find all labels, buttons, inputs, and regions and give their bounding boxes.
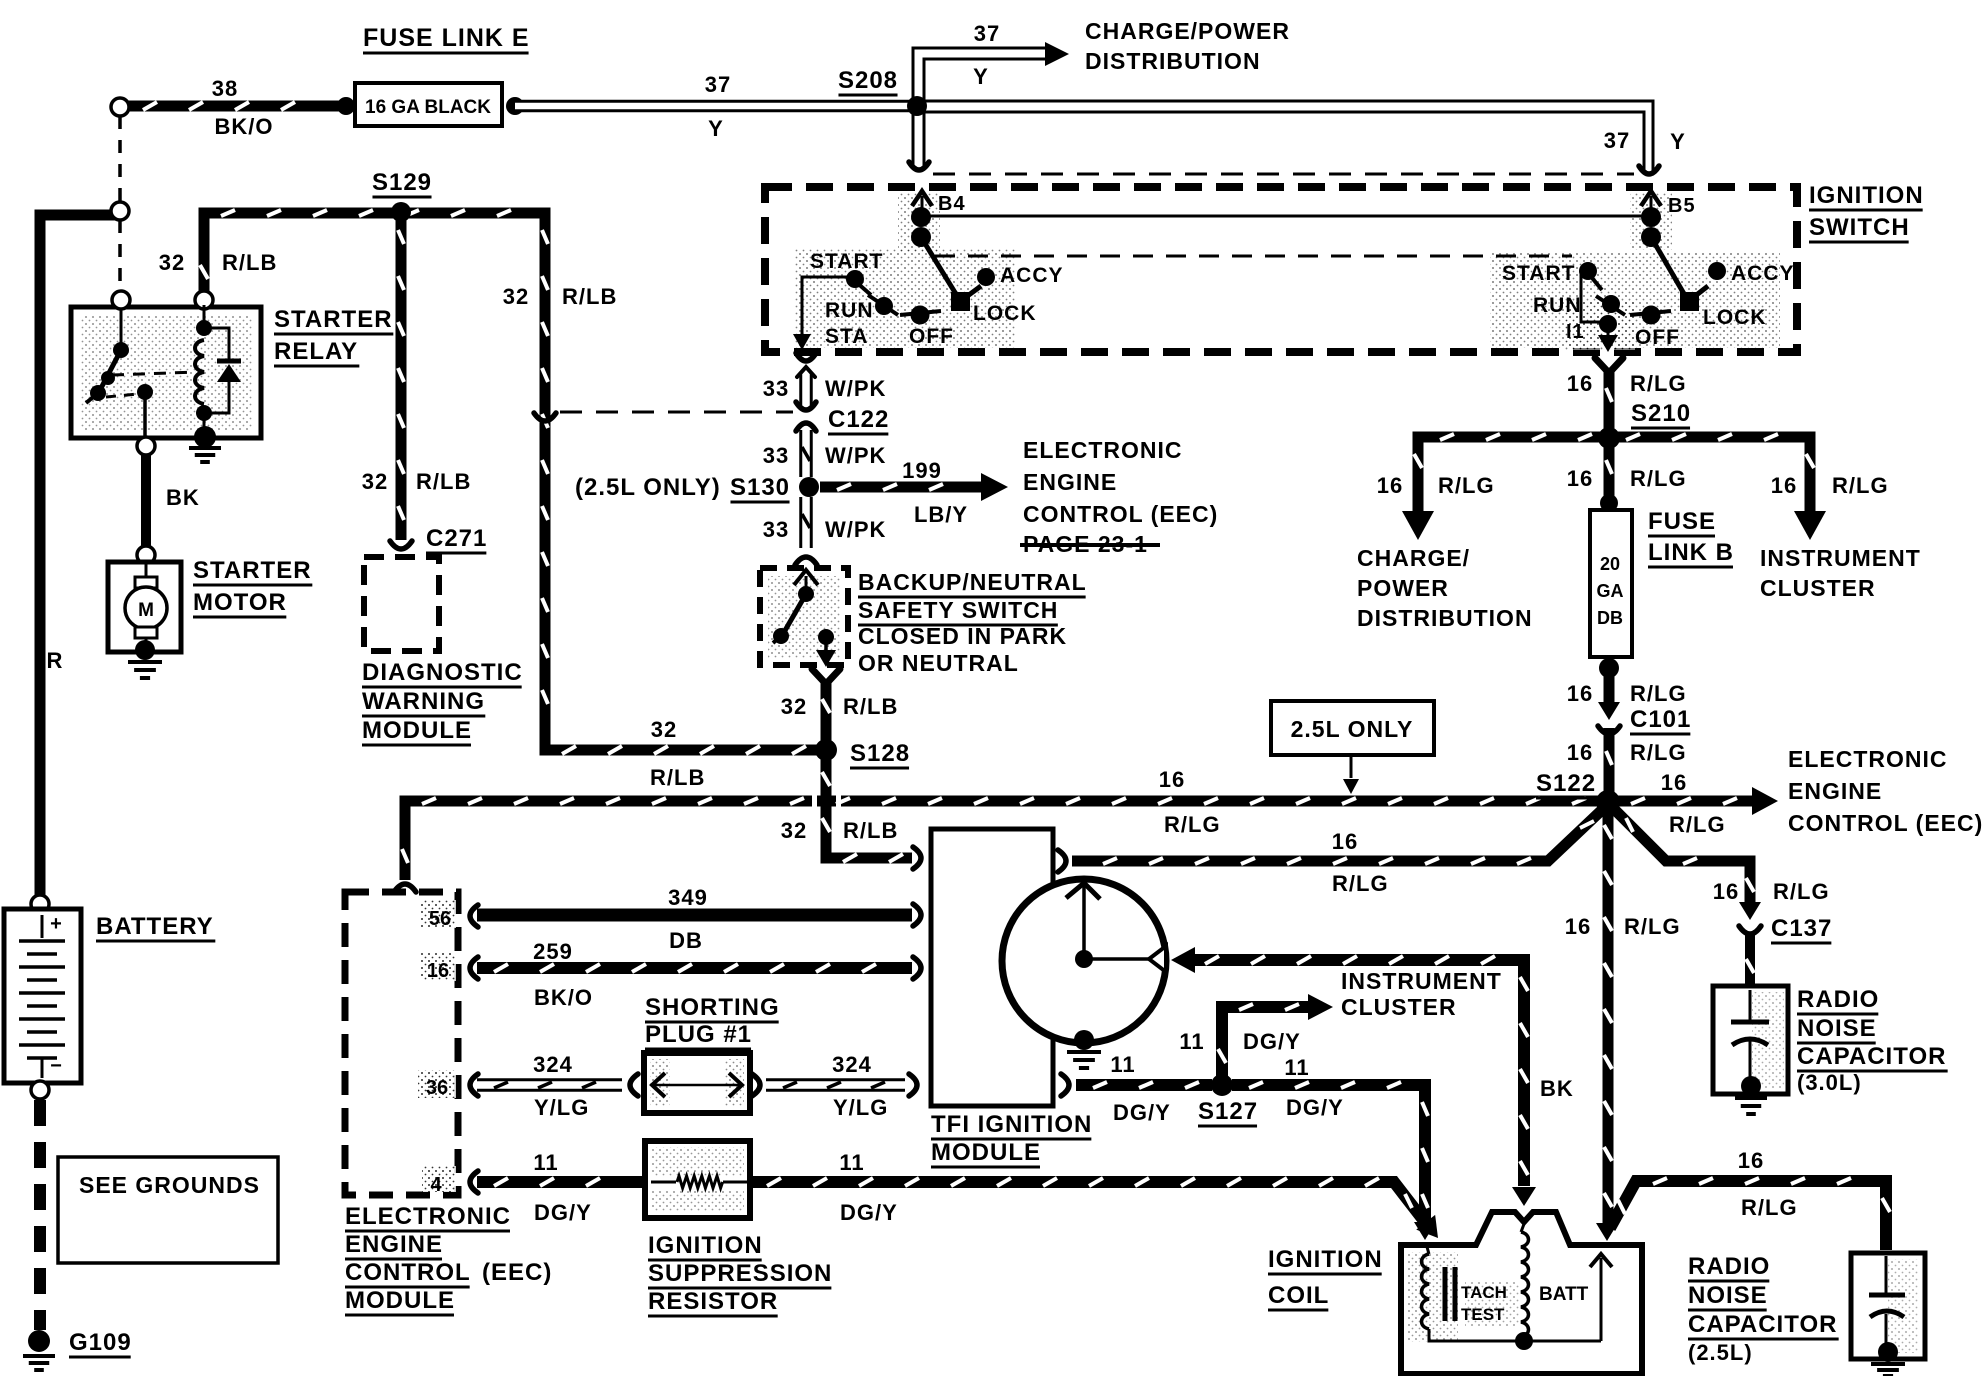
svg-text:R/LG: R/LG bbox=[1630, 371, 1687, 396]
svg-text:RELAY: RELAY bbox=[274, 338, 358, 365]
svg-text:SHORTING: SHORTING bbox=[645, 994, 780, 1021]
svg-text:16: 16 bbox=[1565, 914, 1591, 939]
contact OFF (right) hex dot bbox=[1630, 311, 1671, 315]
hollow terminal below battery bbox=[31, 1081, 49, 1099]
svg-text:DIAGNOSTIC: DIAGNOSTIC bbox=[362, 659, 523, 686]
svg-text:OFF: OFF bbox=[1635, 326, 1680, 349]
S208 right branch 37 Y to ignition switch B5 bbox=[917, 101, 1653, 172]
svg-text:20: 20 bbox=[1600, 554, 1620, 574]
svg-text:16: 16 bbox=[1332, 829, 1358, 854]
wire 11 DG/Y (EEC 4 to resistor) bbox=[477, 1176, 648, 1188]
svg-text:32: 32 bbox=[651, 717, 677, 742]
svg-text:259: 259 bbox=[533, 939, 573, 964]
svg-text:TEST: TEST bbox=[1461, 1305, 1505, 1324]
svg-text:RUN: RUN bbox=[1533, 294, 1582, 317]
svg-text:ENGINE: ENGINE bbox=[1788, 778, 1882, 804]
wire 259 BK/O (EEC 16 to TFI) bbox=[477, 962, 912, 974]
coil primary winding bbox=[1427, 1247, 1429, 1254]
svg-text:CAPACITOR: CAPACITOR bbox=[1688, 1311, 1837, 1338]
svg-text:LINK B: LINK B bbox=[1648, 539, 1734, 566]
svg-text:WARNING: WARNING bbox=[362, 688, 485, 715]
connector flare at EEC module top (16 R/LG) bbox=[394, 884, 416, 892]
svg-text:C101: C101 bbox=[1630, 706, 1691, 733]
hollow terminal above battery bbox=[31, 895, 49, 913]
connector C137 (arrow into connector) bbox=[1739, 902, 1761, 920]
svg-text:16 GA BLACK: 16 GA BLACK bbox=[365, 97, 491, 118]
svg-text:BATT: BATT bbox=[1539, 1284, 1589, 1305]
wire 38 BK/O bbox=[126, 101, 340, 112]
wire below S128 to TFI module bbox=[826, 755, 912, 858]
svg-text:R/LB: R/LB bbox=[843, 818, 898, 843]
resistor element bbox=[651, 1181, 676, 1184]
SEE GROUNDS box bbox=[58, 1157, 278, 1263]
svg-text:TACH: TACH bbox=[1461, 1283, 1507, 1302]
line START to I1 exit (left) bbox=[802, 277, 855, 338]
svg-text:B5: B5 bbox=[1668, 195, 1696, 217]
svg-text:Y: Y bbox=[973, 64, 989, 89]
dashed link down to starter relay bbox=[118, 220, 122, 292]
S208 down branch to ignition switch B4 bbox=[912, 108, 915, 166]
svg-text:DB: DB bbox=[1597, 608, 1623, 628]
svg-text:STA: STA bbox=[825, 325, 868, 348]
relay diode bbox=[204, 328, 229, 360]
connector C101 (arrow into connector) bbox=[1598, 702, 1620, 720]
connector flare below ignition switch I1 (Y) bbox=[1595, 358, 1623, 373]
svg-text:PLUG #1: PLUG #1 bbox=[645, 1021, 752, 1048]
svg-text:M: M bbox=[138, 600, 154, 621]
backup/neutral safety switch dashed box bbox=[760, 568, 848, 665]
svg-text:38: 38 bbox=[212, 76, 238, 101]
svg-text:C122: C122 bbox=[828, 406, 889, 433]
stipple areas in switch bbox=[795, 248, 1015, 348]
svg-text:16: 16 bbox=[1377, 473, 1403, 498]
svg-text:R/LG: R/LG bbox=[1630, 681, 1687, 706]
wire 324 Y/LG (plug to TFI) bbox=[752, 1074, 760, 1096]
splice S122 dot bbox=[1596, 790, 1620, 814]
dashed link between B4 and B5 connectors bbox=[933, 173, 1634, 176]
svg-text:16: 16 bbox=[1567, 466, 1593, 491]
wire 11 DG/Y (S127 to ignition coil) bbox=[1232, 1085, 1425, 1222]
terminal B4 arrow bbox=[921, 196, 924, 216]
terminal B5 arrow bbox=[1650, 196, 1653, 216]
coil bottom junction dot bbox=[1515, 1332, 1533, 1350]
svg-text:NOISE: NOISE bbox=[1688, 1282, 1768, 1309]
svg-text:33: 33 bbox=[763, 517, 789, 542]
svg-text:DB: DB bbox=[669, 928, 703, 953]
fuse link B box 20 GA DB bbox=[1590, 510, 1632, 657]
svg-text:32: 32 bbox=[781, 818, 807, 843]
distributor ground dot bbox=[1074, 1030, 1094, 1050]
coil core bars bbox=[1443, 1267, 1448, 1321]
distributor rotor shaft dot bbox=[1075, 950, 1093, 968]
relay ground symbol bbox=[189, 446, 221, 450]
splice S127 bbox=[1211, 1074, 1233, 1096]
dashed link battery feed down from fuse-link terminal bbox=[118, 116, 122, 202]
dashed divider inside ignition switch bbox=[935, 255, 1572, 258]
shorting plug box bbox=[644, 1053, 750, 1113]
svg-text:LOCK: LOCK bbox=[973, 302, 1037, 325]
capacitor 2.5L ground dot bbox=[1878, 1342, 1898, 1362]
EEC pin 56 bbox=[420, 900, 456, 928]
svg-text:SUPPRESSION: SUPPRESSION bbox=[648, 1260, 832, 1287]
wire BK relay to starter motor bbox=[141, 455, 151, 548]
svg-text:S122: S122 bbox=[1536, 770, 1596, 797]
backup switch blade bbox=[783, 594, 806, 634]
svg-text:−: − bbox=[50, 1055, 62, 1077]
terminal dot above fuse link B bbox=[1600, 494, 1618, 512]
svg-text:START: START bbox=[810, 250, 883, 273]
TFI pin chevrons (left edge) bbox=[913, 904, 921, 926]
wire 32 R/LB to S128 bbox=[821, 682, 832, 746]
wire 11 DG/Y (resistor to ignition coil) bbox=[750, 1182, 1428, 1226]
svg-text:16: 16 bbox=[1738, 1148, 1764, 1173]
svg-text:33: 33 bbox=[763, 376, 789, 401]
svg-text:324: 324 bbox=[533, 1052, 573, 1077]
svg-text:16: 16 bbox=[1661, 770, 1687, 795]
EEC pin 4 bbox=[422, 1166, 456, 1192]
svg-text:RADIO: RADIO bbox=[1688, 1253, 1770, 1280]
battery feed wire R bbox=[40, 215, 116, 897]
svg-text:R/LG: R/LG bbox=[1332, 871, 1389, 896]
svg-text:R: R bbox=[47, 648, 64, 673]
svg-text:R/LG: R/LG bbox=[1164, 812, 1221, 837]
svg-text:CLUSTER: CLUSTER bbox=[1341, 994, 1457, 1020]
svg-text:Y/LG: Y/LG bbox=[833, 1095, 888, 1120]
svg-text:ELECTRONIC: ELECTRONIC bbox=[1788, 746, 1948, 772]
pivot square (left) bbox=[951, 292, 970, 311]
wire 33 W/PK upper bbox=[799, 374, 813, 408]
ignition switch dashed box bbox=[765, 187, 1797, 352]
svg-text:33: 33 bbox=[763, 443, 789, 468]
svg-text:STARTER: STARTER bbox=[274, 306, 393, 333]
arrow I1 exit bbox=[1607, 324, 1610, 336]
switch wiper diagonal (left) bbox=[921, 237, 959, 299]
svg-text:R/LB: R/LB bbox=[650, 765, 705, 790]
contact dot B5 lower bbox=[1641, 227, 1661, 247]
svg-text:R/LB: R/LB bbox=[843, 694, 898, 719]
svg-text:START: START bbox=[1502, 262, 1575, 285]
svg-text:37: 37 bbox=[705, 72, 731, 97]
ground G109 dot bbox=[28, 1330, 50, 1352]
TFI 16 R/LG output chevron (top right) bbox=[1058, 850, 1066, 872]
backup switch entry arrow bbox=[794, 570, 818, 585]
wire from S129 down to C271 bbox=[396, 213, 407, 540]
svg-text:324: 324 bbox=[832, 1052, 872, 1077]
svg-text:MODULE: MODULE bbox=[345, 1287, 455, 1314]
starter motor ground symbol bbox=[128, 660, 162, 664]
svg-text:(2.5L ONLY): (2.5L ONLY) bbox=[575, 474, 721, 501]
wire BK (coil to distributor) bbox=[1188, 960, 1524, 1186]
svg-text:SEE GROUNDS: SEE GROUNDS bbox=[79, 1172, 260, 1198]
coil secondary winding bbox=[1521, 1224, 1524, 1232]
dashed link C122 to R/LB riser bbox=[560, 411, 793, 414]
svg-text:RADIO: RADIO bbox=[1797, 986, 1879, 1013]
svg-text:Y/LG: Y/LG bbox=[534, 1095, 589, 1120]
svg-text:CHARGE/POWER: CHARGE/POWER bbox=[1085, 18, 1290, 44]
motor symbol bbox=[145, 564, 148, 580]
capacitor symbol (3.0L) bbox=[1749, 990, 1752, 1020]
splice S210 dot bbox=[1598, 427, 1620, 449]
long wire 16 R/LG bbox=[405, 801, 1602, 880]
svg-text:ACCY: ACCY bbox=[1731, 262, 1795, 285]
wire 37 Y (double line) to S208 bbox=[515, 100, 917, 113]
TFI ignition module box bbox=[931, 829, 1053, 1106]
wire 324 Y/LG (EEC 36 to shorting plug) bbox=[477, 1078, 622, 1092]
svg-text:C271: C271 bbox=[426, 525, 487, 552]
svg-text:CLOSED IN PARK: CLOSED IN PARK bbox=[858, 623, 1067, 649]
EEC pin 36 bbox=[418, 1070, 456, 1098]
S122 diagonal to C137 branch bbox=[1613, 808, 1750, 903]
svg-text:MODULE: MODULE bbox=[931, 1139, 1041, 1166]
svg-text:11: 11 bbox=[1179, 1029, 1204, 1054]
wire 199 LB/Y to EEC bbox=[820, 482, 985, 493]
svg-text:MODULE: MODULE bbox=[362, 717, 472, 744]
svg-text:POWER: POWER bbox=[1357, 575, 1449, 601]
svg-text:IGNITION: IGNITION bbox=[1268, 1246, 1383, 1273]
svg-text:11: 11 bbox=[839, 1150, 864, 1175]
svg-text:RUN: RUN bbox=[825, 299, 874, 322]
svg-text:FUSE LINK E: FUSE LINK E bbox=[363, 24, 530, 52]
svg-text:COIL: COIL bbox=[1268, 1282, 1329, 1309]
svg-text:INSTRUMENT: INSTRUMENT bbox=[1341, 968, 1502, 994]
svg-text:RESISTOR: RESISTOR bbox=[648, 1288, 778, 1315]
contact ACCY (right) dot bbox=[1708, 262, 1726, 280]
relay contact bbox=[137, 384, 153, 400]
svg-text:W/PK: W/PK bbox=[825, 443, 886, 468]
junction dot left of fuse link box bbox=[337, 97, 355, 115]
radio noise capacitor 3.0L box bbox=[1713, 986, 1788, 1094]
svg-text:NOISE: NOISE bbox=[1797, 1015, 1877, 1042]
svg-text:S130: S130 bbox=[730, 474, 790, 501]
wire 16 R/LG: I1 to S210 bbox=[1604, 371, 1615, 432]
contact START (left) dot bbox=[846, 270, 864, 288]
svg-text:CLUSTER: CLUSTER bbox=[1760, 575, 1876, 601]
svg-text:CONTROL (EEC): CONTROL (EEC) bbox=[1023, 501, 1218, 527]
svg-text:CONTROL (EEC): CONTROL (EEC) bbox=[1788, 810, 1983, 836]
svg-text:BK: BK bbox=[166, 485, 200, 510]
svg-text:MOTOR: MOTOR bbox=[193, 589, 287, 616]
svg-text:16: 16 bbox=[1713, 879, 1739, 904]
svg-text:DISTRIBUTION: DISTRIBUTION bbox=[1357, 605, 1533, 631]
contact dot B4 lower bbox=[911, 227, 931, 247]
starter relay box bbox=[71, 307, 261, 438]
svg-text:R/LG: R/LG bbox=[1773, 879, 1830, 904]
pivot square (right) bbox=[1680, 292, 1699, 311]
svg-text:Y: Y bbox=[708, 116, 724, 141]
svg-text:S129: S129 bbox=[372, 169, 432, 196]
svg-text:Y: Y bbox=[1670, 129, 1686, 154]
svg-text:I1: I1 bbox=[1566, 321, 1585, 343]
EEC module dashed box bbox=[345, 892, 458, 1195]
coil BATT terminal riser bbox=[1600, 1258, 1603, 1341]
S122 down wire to ignition coil bbox=[1603, 808, 1614, 1225]
S208 junction dot bbox=[907, 96, 927, 116]
line START to I1 (right) bbox=[1581, 271, 1604, 322]
svg-text:37: 37 bbox=[974, 21, 1000, 46]
distributor rotor line up bbox=[1082, 884, 1086, 959]
svg-text:S127: S127 bbox=[1198, 1098, 1258, 1125]
svg-text:ELECTRONIC: ELECTRONIC bbox=[345, 1203, 511, 1230]
svg-text:GA: GA bbox=[1597, 581, 1624, 601]
S208 branch up to charge/power distribution arrow bbox=[913, 48, 1050, 104]
svg-text:R/LG: R/LG bbox=[1669, 812, 1726, 837]
svg-text:11: 11 bbox=[1284, 1055, 1309, 1080]
svg-text:37: 37 bbox=[1604, 128, 1630, 153]
connector chevron on riser receiving C122 dashed link bbox=[534, 413, 556, 421]
EEC pin 16 bbox=[420, 953, 456, 981]
diagnostic warning module dashed box bbox=[364, 557, 439, 651]
S210 right arm to instrument cluster bbox=[1609, 437, 1810, 512]
splice S128 bbox=[815, 739, 837, 761]
contact START (right) dot bbox=[1579, 262, 1597, 280]
S210 left arm to charge/power distribution bbox=[1418, 437, 1609, 512]
wire C101 to S122 bbox=[1604, 728, 1615, 796]
terminal dot below fuse link B bbox=[1599, 658, 1619, 678]
ignition coil case bbox=[1401, 1212, 1642, 1374]
capacitor 2.5L ground symbol bbox=[1871, 1362, 1905, 1366]
svg-text:BACKUP/NEUTRAL: BACKUP/NEUTRAL bbox=[858, 569, 1087, 595]
svg-text:11: 11 bbox=[533, 1150, 558, 1175]
svg-text:16: 16 bbox=[1567, 681, 1593, 706]
svg-text:CONTROL: CONTROL bbox=[345, 1259, 471, 1286]
battery ground cable (dashed thick) bbox=[34, 1100, 46, 1330]
svg-text:SWITCH: SWITCH bbox=[1809, 214, 1910, 241]
relay coil bbox=[203, 305, 206, 330]
junction dot right of fuse link box bbox=[506, 97, 524, 115]
svg-text:W/PK: W/PK bbox=[825, 517, 886, 542]
distributor ground symbol bbox=[1067, 1050, 1101, 1054]
svg-text:CAPACITOR: CAPACITOR bbox=[1797, 1043, 1946, 1070]
contact OFF (left) hex dot bbox=[900, 311, 941, 315]
svg-text:DG/Y: DG/Y bbox=[1286, 1095, 1344, 1120]
svg-text:16: 16 bbox=[1567, 371, 1593, 396]
svg-text:G109: G109 bbox=[69, 1329, 132, 1356]
backup switch lower-left contact dot bbox=[773, 628, 789, 644]
backup switch exit arrow bbox=[824, 637, 828, 650]
wire 11 DG/Y (TFI to S127) bbox=[1061, 1074, 1069, 1096]
relay output terminal ring bbox=[137, 437, 155, 455]
svg-text:16: 16 bbox=[1771, 473, 1797, 498]
hollow terminal at corner bbox=[111, 202, 129, 220]
svg-text:IGNITION: IGNITION bbox=[648, 1232, 763, 1259]
svg-text:SAFETY SWITCH: SAFETY SWITCH bbox=[858, 597, 1058, 623]
svg-text:DG/Y: DG/Y bbox=[1243, 1029, 1301, 1054]
svg-text:BATTERY: BATTERY bbox=[96, 913, 214, 940]
svg-text:ELECTRONIC: ELECTRONIC bbox=[1023, 437, 1183, 463]
svg-text:OR NEUTRAL: OR NEUTRAL bbox=[858, 650, 1019, 676]
contact RUN (left) dot bbox=[868, 295, 898, 315]
wire fuse to C101 bbox=[1604, 668, 1615, 704]
wire C137 to radio noise capacitor 3.0L bbox=[1745, 932, 1755, 988]
fuse link box 16 GA BLACK bbox=[355, 83, 502, 126]
svg-text:+: + bbox=[50, 913, 62, 935]
relay armature bbox=[120, 309, 123, 345]
svg-text:DG/Y: DG/Y bbox=[840, 1200, 898, 1225]
ignition suppression resistor box bbox=[645, 1141, 750, 1218]
wire 33 W/PK middle bbox=[799, 430, 813, 477]
svg-text:R/LG: R/LG bbox=[1438, 473, 1495, 498]
coil bottom bus bbox=[1429, 1329, 1601, 1341]
capacitor 3.0L ground dot bbox=[1741, 1076, 1761, 1096]
svg-text:TFI IGNITION: TFI IGNITION bbox=[931, 1111, 1092, 1138]
svg-text:ACCY: ACCY bbox=[1000, 264, 1064, 287]
connector flare below ignition switch (33 W/PK) bbox=[796, 353, 816, 361]
shorting plug internal link bbox=[652, 1084, 742, 1087]
wire 33 W/PK lower bbox=[799, 497, 813, 548]
svg-text:CHARGE/: CHARGE/ bbox=[1357, 545, 1470, 571]
svg-text:R/LG: R/LG bbox=[1630, 466, 1687, 491]
contact RUN (right) dot bbox=[1596, 296, 1625, 315]
thin line from B4 to B5 bbox=[921, 215, 1646, 218]
wire 11 DG/Y (S127 up to instrument cluster) bbox=[1222, 1007, 1310, 1080]
svg-text:S128: S128 bbox=[850, 740, 910, 767]
svg-text:R/LG: R/LG bbox=[1630, 740, 1687, 765]
svg-text:R/LB: R/LB bbox=[562, 284, 617, 309]
wire 349 DB (EEC 56 to TFI) bbox=[477, 909, 912, 922]
svg-text:B4: B4 bbox=[938, 193, 966, 215]
svg-text:11: 11 bbox=[1110, 1052, 1135, 1077]
ground symbol G109 bbox=[23, 1354, 55, 1358]
svg-text:IGNITION: IGNITION bbox=[1809, 182, 1924, 209]
svg-text:32: 32 bbox=[362, 469, 388, 494]
connector flare below S208 bbox=[909, 162, 929, 170]
backup switch upper contact dot bbox=[798, 586, 814, 602]
svg-text:DG/Y: DG/Y bbox=[534, 1200, 592, 1225]
svg-text:DISTRIBUTION: DISTRIBUTION bbox=[1085, 48, 1261, 74]
inline connector C122 bbox=[796, 402, 816, 410]
svg-text:(3.0L): (3.0L) bbox=[1797, 1070, 1862, 1095]
capacitor 3.0L ground symbol bbox=[1735, 1096, 1767, 1100]
svg-text:ENGINE: ENGINE bbox=[1023, 469, 1117, 495]
capacitor symbol (2.5L) bbox=[1885, 1256, 1888, 1293]
contact dot B4 upper bbox=[911, 207, 931, 227]
wire 32 R/LB from starter relay to S129 and right corner bbox=[204, 213, 830, 750]
svg-text:2.5L ONLY: 2.5L ONLY bbox=[1291, 716, 1414, 742]
svg-text:349: 349 bbox=[668, 885, 708, 910]
svg-text:R/LG: R/LG bbox=[1624, 914, 1681, 939]
svg-text:DG/Y: DG/Y bbox=[1113, 1100, 1171, 1125]
S122 diagonal to TFI feed wire bbox=[1072, 808, 1604, 861]
2.5L ONLY pointer arrow bbox=[1350, 757, 1353, 778]
connector flare at C271 bbox=[390, 541, 412, 549]
contact ACCY (left) dot bbox=[977, 268, 995, 286]
wire 16 R/LG (coil BATT node to capacitor 2.5L) bbox=[1610, 1181, 1886, 1250]
svg-text:16: 16 bbox=[427, 960, 449, 982]
starter motor box bbox=[108, 562, 181, 652]
svg-text:32: 32 bbox=[159, 250, 185, 275]
svg-text:ENGINE: ENGINE bbox=[345, 1231, 443, 1258]
svg-text:BK/O: BK/O bbox=[215, 114, 274, 139]
connector flare below backup/neutral switch (Y) bbox=[812, 669, 840, 684]
svg-text:S208: S208 bbox=[838, 67, 898, 94]
svg-text:199: 199 bbox=[902, 458, 942, 483]
relay armature dashed link bbox=[112, 372, 196, 375]
svg-text:16: 16 bbox=[1567, 740, 1593, 765]
svg-text:(2.5L): (2.5L) bbox=[1688, 1340, 1753, 1365]
svg-text:BK: BK bbox=[1540, 1076, 1574, 1101]
svg-text:STARTER: STARTER bbox=[193, 557, 312, 584]
svg-text:R/LG: R/LG bbox=[1832, 473, 1889, 498]
svg-text:4: 4 bbox=[430, 1174, 442, 1196]
connector flare at right branch end bbox=[1639, 166, 1659, 174]
svg-text:LB/Y: LB/Y bbox=[914, 502, 968, 527]
wire S210 down to fuse link B bbox=[1604, 443, 1615, 500]
svg-text:R/LB: R/LB bbox=[222, 250, 277, 275]
relay internal ground dot bbox=[194, 426, 216, 448]
svg-text:LOCK: LOCK bbox=[1703, 306, 1767, 329]
terminal ring above starter motor bbox=[137, 546, 155, 564]
junction dot I1 bbox=[1599, 315, 1617, 333]
